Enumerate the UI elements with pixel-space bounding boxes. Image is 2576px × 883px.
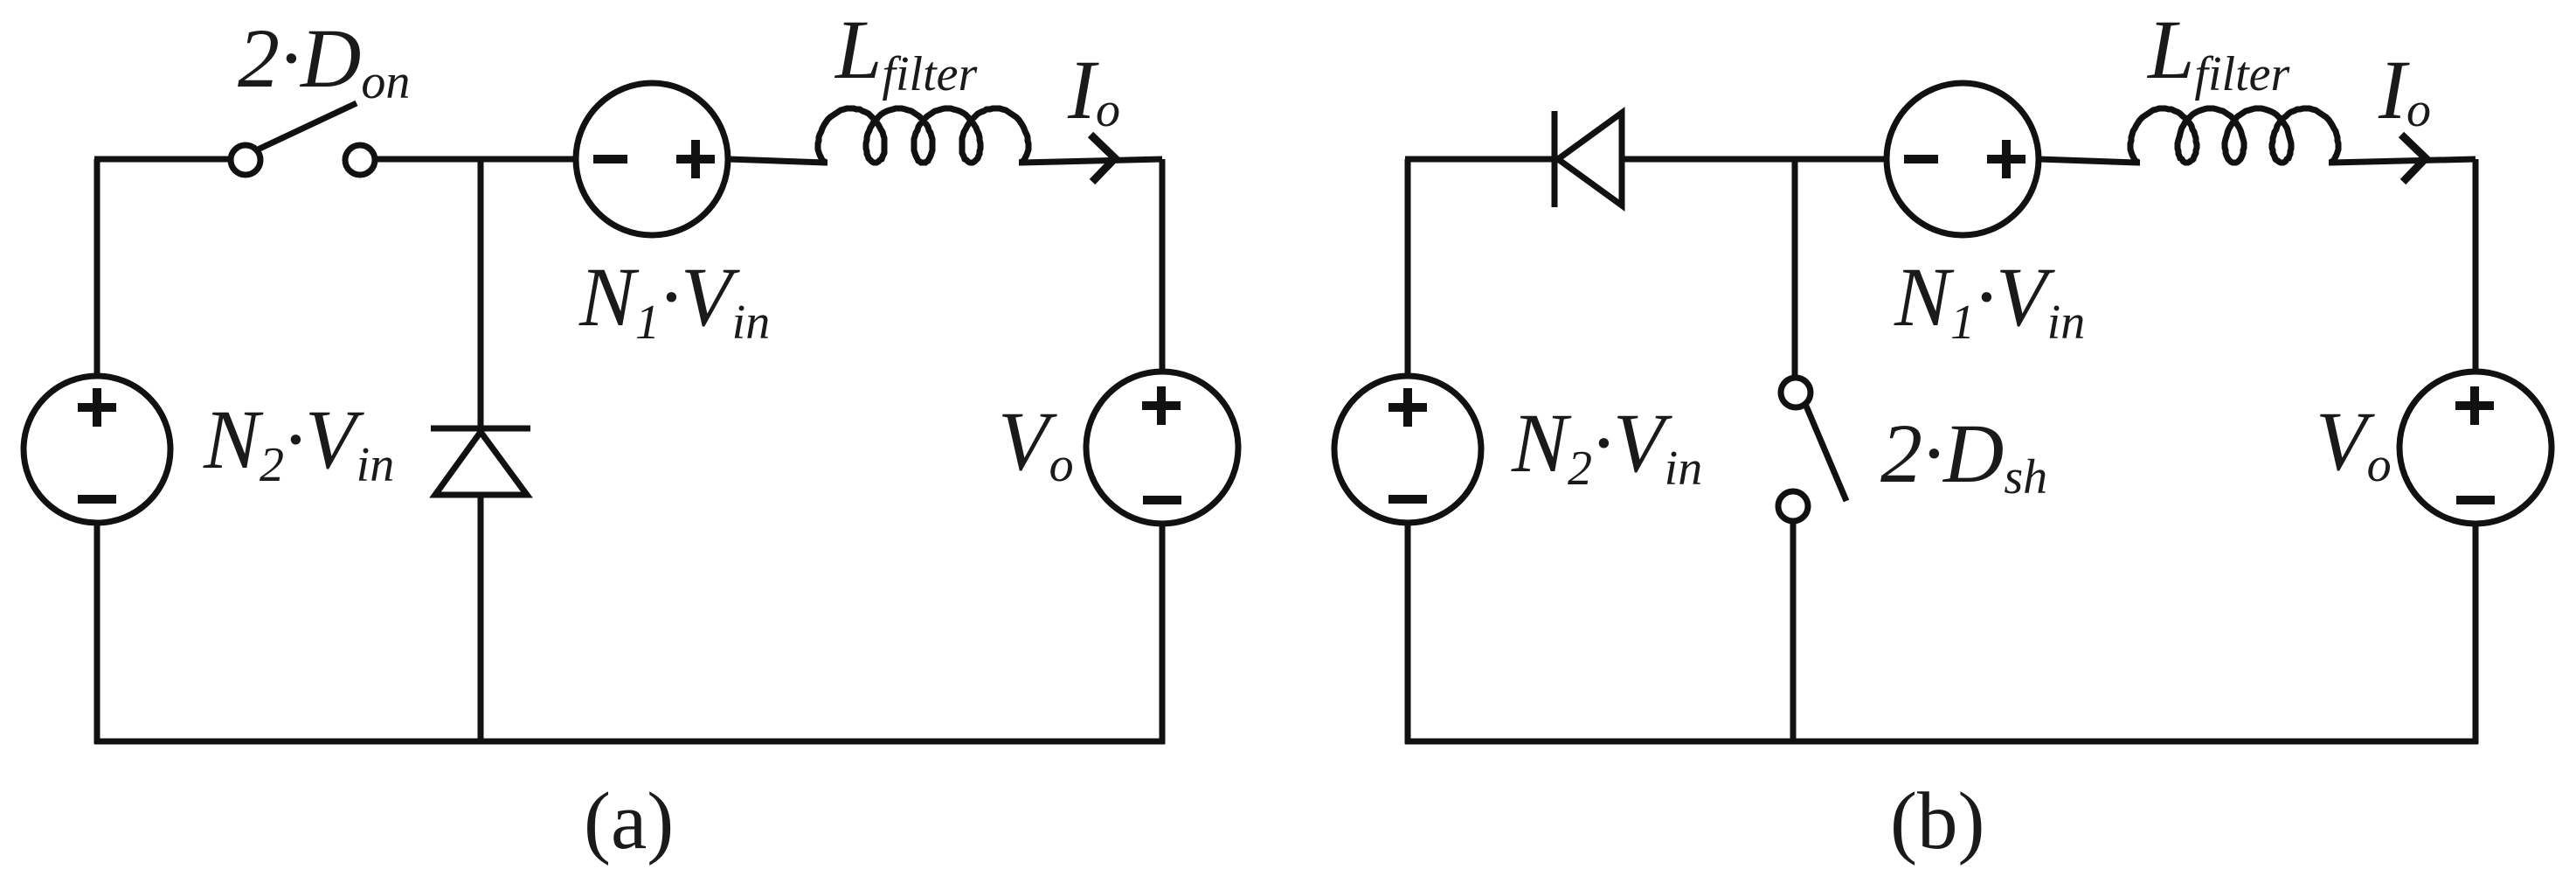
wire: diode to bottom xyxy=(478,495,484,744)
wire: inductor to corner (b) xyxy=(2331,159,2476,163)
source U2 N1*Vin circle (b) xyxy=(1887,83,2039,235)
wire: left vertical bottom (b) xyxy=(1405,523,1411,744)
svg-text:Io: Io xyxy=(1067,43,1120,137)
source N2*Vin minus (a) xyxy=(78,495,116,504)
wire: bottom horizontal (a) xyxy=(94,739,1165,745)
switch 2-Don left contact xyxy=(231,145,260,175)
diode D2 cathode bar xyxy=(1552,111,1558,207)
source N2*Vin minus (b) xyxy=(1388,495,1427,504)
wire: top left to diode (b) xyxy=(1405,156,1552,163)
source U2 plus sign xyxy=(1987,140,2025,178)
switch 2-Don blade xyxy=(258,103,357,149)
wire: right vertical bottom xyxy=(1160,524,1166,744)
svg-text:Lfilter: Lfilter xyxy=(2146,3,2289,101)
svg-text:Vo: Vo xyxy=(2316,394,2392,492)
wire: left vertical bottom xyxy=(94,523,100,744)
source Vo plus sign xyxy=(1142,386,1181,425)
source N2*Vin plus (a) xyxy=(78,388,116,427)
wire: source to inductor (b) xyxy=(2039,159,2137,163)
source U2 minus sign xyxy=(1904,155,1938,163)
wire: diode to source (b) xyxy=(1622,156,1887,163)
arrow Io head xyxy=(1091,135,1115,182)
source Vo plus sign (b) xyxy=(2455,386,2494,425)
switch 2-Dsh blade xyxy=(1805,404,1846,501)
switch 2-Dsh bottom contact xyxy=(1778,491,1808,521)
wire: right vertical top (b) xyxy=(2473,159,2479,372)
source U1 plus sign xyxy=(676,140,715,178)
svg-text:Vo: Vo xyxy=(998,394,1074,492)
wire: diode branch vertical from junction xyxy=(478,159,484,426)
switch 2-Don right contact xyxy=(345,145,375,175)
source Vo minus sign (b) xyxy=(2456,496,2495,504)
wire: left vertical top (b) xyxy=(1405,159,1411,376)
source N2*Vin plus (b) xyxy=(1388,388,1427,427)
switch 2-Dsh top contact xyxy=(1781,378,1811,407)
source N2*Vin circle (b) xyxy=(1334,376,1481,523)
wire: switch branch vertical from junction (b) xyxy=(1792,159,1798,375)
svg-text:2·Don: 2·Don xyxy=(238,11,410,109)
wire: switch to source N1Vin xyxy=(375,156,576,163)
wire: bottom horizontal (b) xyxy=(1405,739,2478,745)
source N2*Vin circle (a) xyxy=(24,376,170,523)
wire: source to inductor xyxy=(728,159,825,163)
wire: inductor to corner xyxy=(1021,159,1162,163)
diode D1 triangle xyxy=(435,432,527,495)
wire: switch to bottom (b) xyxy=(1790,521,1797,744)
inductor Lfilter coil (b) xyxy=(2130,108,2338,163)
svg-text:(b): (b) xyxy=(1890,776,1984,866)
source Vo circle xyxy=(1086,372,1238,524)
source Vo circle (b) xyxy=(2399,372,2552,524)
svg-text:Io: Io xyxy=(2378,43,2431,137)
svg-text:N1·Vin: N1·Vin xyxy=(1894,250,2085,350)
inductor Lfilter coil xyxy=(818,108,1028,163)
svg-text:(a): (a) xyxy=(584,776,674,866)
arrow Io head (b) xyxy=(2401,135,2426,182)
wire: top left horizontal to switch xyxy=(94,156,228,163)
svg-text:Lfilter: Lfilter xyxy=(834,3,977,101)
svg-text:N2·Vin: N2·Vin xyxy=(203,393,394,492)
wire: right vertical bottom (b) xyxy=(2473,524,2479,744)
diode D1 cathode bar xyxy=(431,426,530,432)
svg-text:2·Dsh: 2·Dsh xyxy=(1880,407,2047,504)
svg-text:N2·Vin: N2·Vin xyxy=(1511,396,1702,496)
wire: right vertical top xyxy=(1160,159,1166,372)
source Vo minus sign xyxy=(1143,496,1181,504)
wire: left vertical top xyxy=(94,159,100,376)
source U1 N1*Vin circle xyxy=(576,83,728,235)
diode D2 triangle xyxy=(1558,113,1622,205)
source U1 minus sign xyxy=(593,155,627,163)
svg-text:N1·Vin: N1·Vin xyxy=(578,250,770,350)
